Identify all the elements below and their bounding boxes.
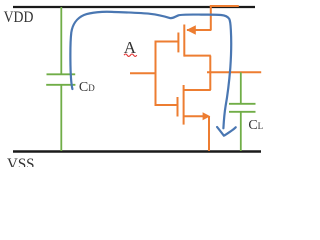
wire: input vertical joining both gates [155,42,157,106]
wire: input lead to node A [130,72,156,74]
wire: PMOS gate lead [155,41,179,43]
svg-text:C: C [79,80,88,95]
wire: elbow run along VDD rail [210,5,239,7]
blue annotation arrow: charge flow from CD over VDD rail down to CL [70,12,231,129]
wire: CL bottom plate to VSS [240,112,242,151]
transistor M2 NMOS drain wire [184,89,211,91]
transistor M1 PMOS drain wire [184,55,211,57]
red spell-check squiggle under A [124,54,137,56]
blue arrowhead [217,127,236,136]
wire: output tap to CL [207,71,261,73]
wire: VDD to CD top plate [60,7,62,74]
svg-text:D: D [88,83,95,93]
transistor M2 NMOS gate bar [177,97,179,117]
transistor M2 NMOS channel bar [183,85,185,125]
transistor M1 PMOS channel bar [183,25,185,57]
wire: NMOS source to VSS (vertical) [208,116,210,151]
transistor M1 PMOS source arrowhead [186,25,196,35]
capacitor CL top plate [229,103,256,105]
transistor M1 PMOS source wire [187,29,211,31]
svg-text:VDD: VDD [4,9,34,26]
wire: CD bottom plate to VSS [60,85,62,151]
wire: VDD to PMOS source (vertical) [210,6,212,30]
capacitor CL bottom plate [229,111,256,113]
svg-text:VSS: VSS [7,156,35,167]
VSS rail (bottom) [13,150,261,152]
wire: NMOS gate lead [155,104,178,106]
svg-text:L: L [258,121,264,131]
VDD rail (top) [13,6,255,8]
wire: PMOS drain to NMOS drain (output node vertical) [209,56,211,90]
transistor M2 NMOS source wire [184,115,204,117]
svg-text:C: C [248,118,257,133]
wire: output tap down to CL top plate [240,72,242,104]
capacitor CD bottom plate [46,84,75,86]
capacitor CD top plate [47,73,76,75]
transistor M1 PMOS gate bar [177,33,179,53]
transistor M2 NMOS source arrowhead [203,112,211,120]
